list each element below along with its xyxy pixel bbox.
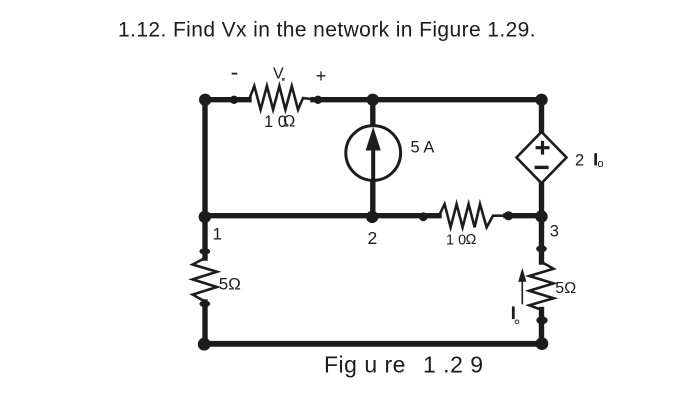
svg-text:1.12. Find Vx in the network i: 1.12. Find Vx in the network in Figure 1… (118, 19, 536, 42)
svg-text:o: o (598, 158, 604, 170)
svg-text:Fig u re: Fig u re (324, 352, 406, 378)
svg-text:1 0: 1 0 (446, 233, 466, 249)
svg-text:5Ω: 5Ω (219, 275, 241, 294)
svg-text:+: + (316, 66, 327, 86)
svg-text:2: 2 (575, 152, 584, 170)
svg-text:3: 3 (550, 223, 559, 241)
svg-text:Ω: Ω (283, 112, 295, 130)
svg-text:-: - (231, 59, 239, 85)
svg-text:1 .2 9: 1 .2 9 (423, 352, 484, 378)
svg-text:5Ω: 5Ω (555, 280, 576, 297)
svg-text:1: 1 (213, 224, 222, 243)
svg-text:Ω: Ω (466, 232, 477, 248)
svg-text:5 A: 5 A (411, 139, 435, 157)
svg-text:2: 2 (368, 228, 378, 248)
